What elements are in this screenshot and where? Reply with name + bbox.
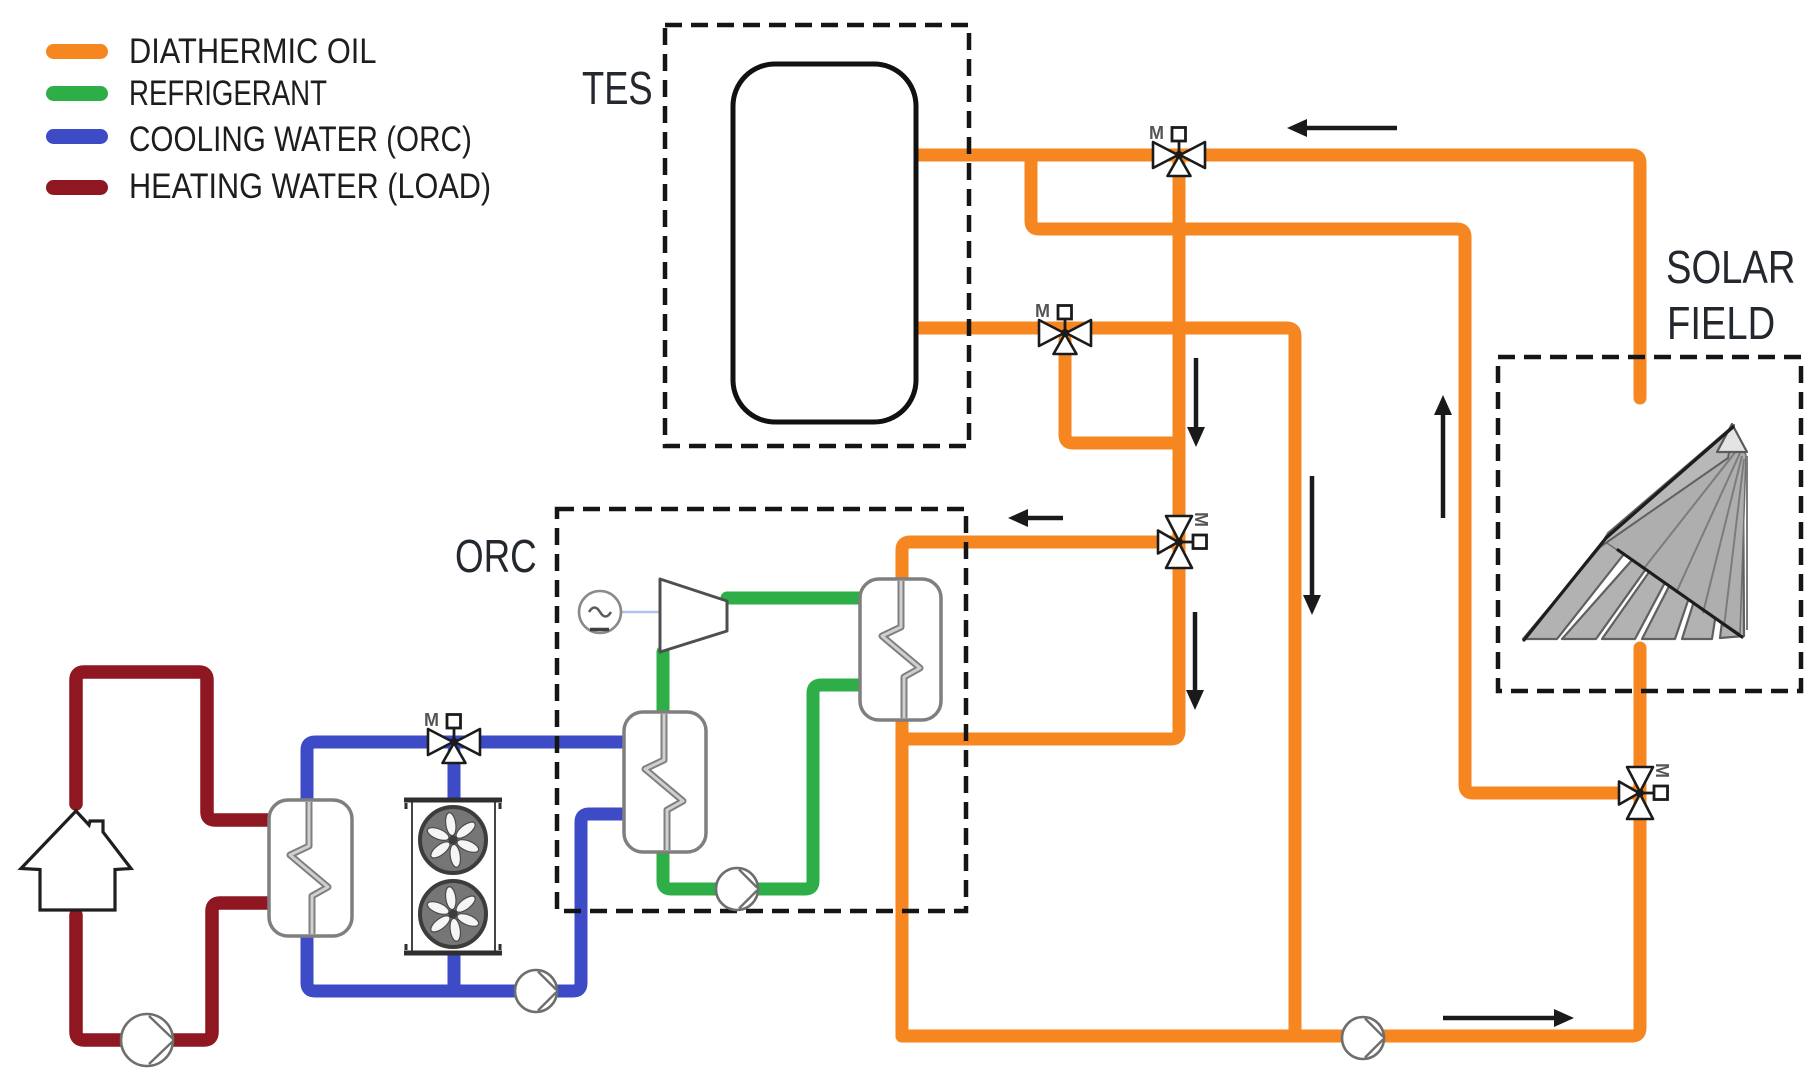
label: SOLAR FIELD (1666, 242, 1795, 293)
solar collector apex cap (1717, 424, 1747, 452)
legend label: COOLING WATER (ORC) (129, 120, 472, 159)
wire: cooling water fan cooler bottom stub (448, 952, 461, 991)
legend swatch: cooling water (46, 129, 108, 144)
wire: diathermic oil branch from top header down and around to solar return valve (1031, 155, 1640, 793)
solar collector upper fascia (1604, 428, 1746, 634)
svg-text:DIATHERMIC OIL: DIATHERMIC OIL (129, 31, 376, 70)
flow arrow: main vertical downward (upper) (1187, 358, 1205, 447)
flow arrow: evaporator feed leftward (1008, 509, 1063, 527)
heat exchanger: ORC evaporator (860, 579, 941, 720)
valve V2 (TES bottom header) (1035, 301, 1091, 354)
wire: diathermic oil TES top header to solar field inlet (917, 155, 1640, 398)
valve V1 (TES top / solar header) (1149, 123, 1205, 176)
legend swatch: refrigerant (46, 86, 108, 101)
svg-text:TES: TES (582, 62, 653, 114)
ORC dashed enclosure (557, 509, 966, 911)
fan cooler unit (404, 800, 502, 953)
svg-text:REFRIGERANT: REFRIGERANT (129, 73, 327, 113)
pump: cooling water (515, 970, 557, 1012)
flow arrow: bottom return rightward (1443, 1009, 1574, 1027)
svg-text:ORC: ORC (455, 530, 537, 582)
solar collector black fold lines (1524, 427, 1742, 640)
turbine T (660, 579, 727, 652)
flow arrow: main vertical downward (lower) (1186, 612, 1204, 710)
wire: refrigerant turbine outlet to evaporator (727, 592, 866, 605)
wire: refrigerant loop condenser-pump-recuperator riser (663, 652, 866, 889)
valve V3 (main vertical, rotated) (1158, 512, 1211, 568)
TES dashed enclosure (665, 25, 969, 446)
wire: diathermic oil valve V3 to evaporator drop (902, 542, 1173, 1036)
legend label: DIATHERMIC OIL (129, 31, 376, 70)
svg-text:SOLAR: SOLAR (1666, 242, 1795, 293)
pump: heating water (121, 1014, 173, 1066)
heat exchanger: ORC condenser (624, 712, 706, 852)
heat exchanger: load HX (269, 800, 352, 936)
generator G (579, 591, 659, 633)
wire: diathermic oil TES bottom header to right drop (917, 328, 1295, 1036)
legend swatch: diathermic oil (46, 44, 108, 59)
valve V5 (cooling water) (424, 710, 480, 763)
house (heat load) (21, 811, 131, 910)
wire: heating water supply house to load HX (76, 672, 274, 820)
svg-text:FIELD: FIELD (1667, 298, 1775, 349)
flow arrow: solar riser upward (1434, 395, 1452, 518)
legend label: HEATING WATER (LOAD) (129, 166, 491, 205)
pump: diathermic oil (1342, 1017, 1384, 1059)
SOLAR FIELD dashed enclosure (1498, 357, 1801, 691)
wire: heating water return house bottom loop to load HX (76, 903, 274, 1040)
svg-text:HEATING WATER (LOAD): HEATING WATER (LOAD) (129, 166, 491, 205)
solar collector top ribbon (1600, 425, 1734, 547)
label: ORC (455, 530, 537, 582)
wire: diathermic oil solar field outlet through valve V4 to bottom (1632, 648, 1640, 1036)
wire: cooling water valve V5 to fan cooler stub (448, 752, 461, 802)
wire: diathermic oil valve V2 bottom stub (1065, 340, 1179, 443)
wire: cooling water condenser supply top (307, 742, 630, 815)
wire: diathermic oil main vertical from valve V1 to evaporator return (902, 155, 1179, 739)
wire: cooling water bottom return to condenser (307, 814, 630, 991)
svg-text:COOLING WATER (ORC): COOLING WATER (ORC) (129, 120, 472, 159)
flow arrow: top header leftward (1287, 119, 1397, 137)
flow arrow: right drop downward (1303, 476, 1321, 615)
wire: diathermic oil bottom return line (902, 1030, 1632, 1043)
legend swatch: heating water (46, 180, 108, 195)
pump: refrigerant (716, 868, 758, 910)
legend label: REFRIGERANT (129, 73, 327, 113)
solar collector fan icon (1523, 444, 1744, 639)
label: TES (582, 62, 653, 114)
TES storage tank (733, 64, 916, 422)
valve V4 (solar return, rotated) (1619, 763, 1672, 819)
